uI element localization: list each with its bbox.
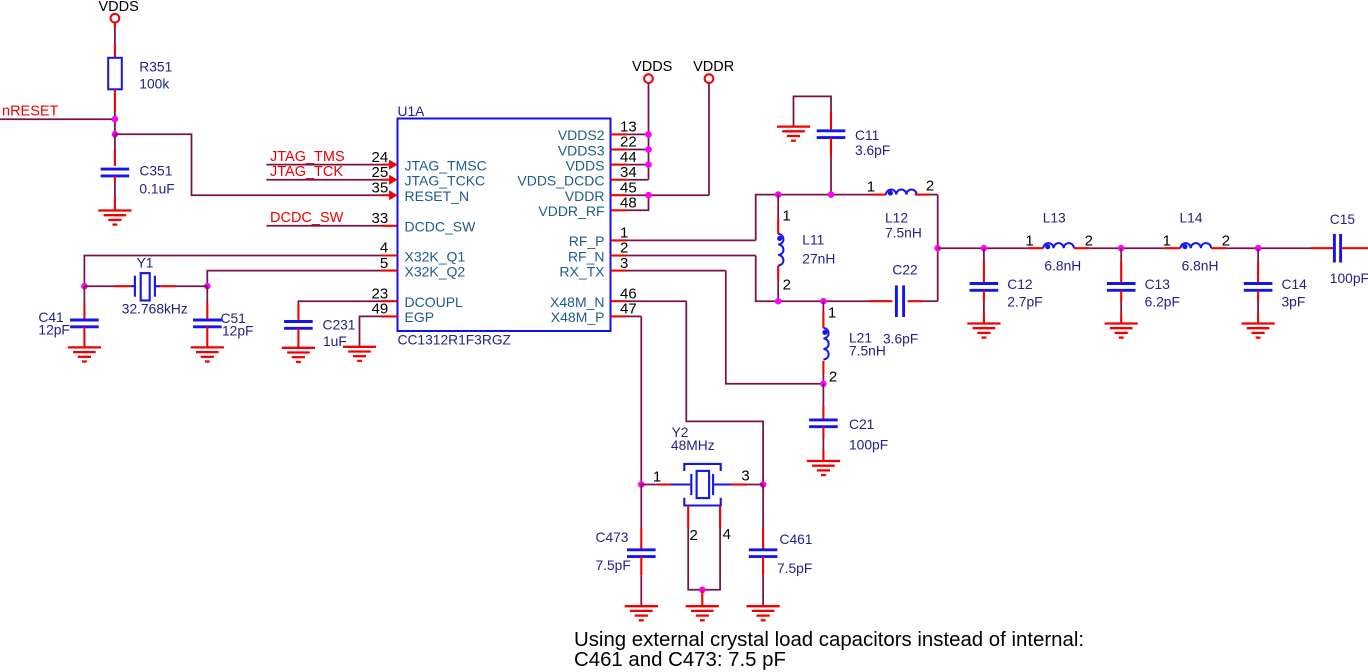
wire VDDR horizontal bbox=[627, 194, 710, 196]
ground C461 bbox=[747, 606, 780, 620]
wire JTAG_TMS bbox=[267, 164, 383, 166]
capacitor C473 bbox=[627, 550, 656, 557]
svg-text:100pF: 100pF bbox=[1330, 271, 1368, 286]
wire RF_N down to bottom rail bbox=[756, 256, 779, 302]
capacitor C22 bbox=[896, 285, 903, 317]
svg-text:7.5pF: 7.5pF bbox=[777, 561, 812, 576]
crystal Y2 48MHz bbox=[671, 464, 731, 506]
svg-text:DCDC_SW: DCDC_SW bbox=[405, 219, 477, 235]
svg-text:2.7pF: 2.7pF bbox=[1007, 295, 1042, 310]
wire DCOUPL to C231 bbox=[298, 301, 381, 304]
wire C41 to ground bbox=[83, 327, 85, 348]
svg-text:DCOUPL: DCOUPL bbox=[405, 294, 464, 310]
wire pin 48 to VDDR junction bbox=[627, 195, 649, 210]
pin stub X32K_Q1 bbox=[381, 254, 398, 256]
capacitor C41 bbox=[70, 320, 99, 327]
pin stub X32K_Q2 bbox=[381, 270, 398, 272]
svg-text:3: 3 bbox=[741, 467, 749, 484]
svg-text:7.5nH: 7.5nH bbox=[849, 344, 886, 359]
junction L21/RX_TX/C21 bbox=[820, 381, 827, 388]
capacitor C11 bbox=[817, 131, 846, 138]
capacitor C231 bbox=[284, 322, 313, 329]
pin stub 48 bbox=[611, 209, 627, 211]
wire Y2 pin4 bbox=[719, 506, 721, 529]
svg-text:R351: R351 bbox=[139, 60, 172, 75]
pin stub 3 bbox=[611, 270, 627, 272]
svg-text:100k: 100k bbox=[139, 77, 169, 92]
junction Y2 pin 3 bbox=[760, 481, 767, 488]
wire X48M_N from pin 46 bbox=[627, 300, 687, 302]
wire pin 13 to VDDS bbox=[627, 133, 649, 135]
svg-text:C461 and C473: 7.5 pF: C461 and C473: 7.5 pF bbox=[574, 649, 786, 671]
power symbol VDDS (top left) bbox=[111, 14, 120, 23]
wire C13 to ground bbox=[1120, 290, 1122, 302]
svg-text:L14: L14 bbox=[1180, 210, 1203, 225]
wire Y2 pin1 lead bbox=[641, 484, 658, 486]
wire X32K_Q2 from pin 5 bbox=[207, 271, 381, 287]
svg-text:25: 25 bbox=[372, 164, 389, 181]
capacitor C15 bbox=[1334, 234, 1340, 263]
wire nRESET vertical bbox=[114, 112, 116, 134]
wire L13 pin2 red stub bbox=[1074, 247, 1089, 249]
wire Y2 case to ground bbox=[701, 590, 703, 606]
wire to C12 bbox=[983, 248, 985, 261]
pin stub 34 bbox=[611, 179, 627, 181]
svg-text:34: 34 bbox=[620, 164, 637, 181]
junction C12 tap bbox=[981, 245, 988, 252]
svg-text:C11: C11 bbox=[855, 128, 879, 143]
wire to C51 bbox=[206, 286, 208, 303]
wire EGP to ground bbox=[360, 316, 382, 346]
svg-text:2: 2 bbox=[783, 277, 791, 294]
junction Y2 case bbox=[699, 587, 706, 594]
wire C351 to ground bbox=[114, 176, 116, 182]
wire L14 pin2 red stub bbox=[1211, 247, 1226, 249]
svg-text:2: 2 bbox=[829, 369, 837, 386]
wire DCDC_SW bbox=[267, 225, 383, 227]
wire Y2 pin3 lead bbox=[731, 483, 747, 485]
wire top rail to corner bbox=[930, 194, 938, 196]
inductor L14 bbox=[1181, 243, 1212, 249]
pin stub EGP bbox=[381, 315, 398, 317]
svg-text:32.768kHz: 32.768kHz bbox=[122, 301, 188, 316]
pin stub 13 bbox=[611, 133, 627, 135]
wire L21 pin2 bbox=[822, 361, 824, 374]
svg-text:C21: C21 bbox=[849, 417, 874, 432]
power symbol VDDS (right) bbox=[644, 74, 653, 83]
wire R351 to nRESET node (red stub) bbox=[114, 89, 116, 112]
svg-text:2: 2 bbox=[690, 527, 698, 544]
svg-text:1: 1 bbox=[1163, 233, 1171, 250]
pin stub DCOUPL bbox=[381, 300, 398, 302]
wire C11 top stub bbox=[830, 111, 832, 131]
wire VDDR vertical bbox=[708, 83, 710, 195]
wire C22 pin2 red stub bbox=[908, 300, 922, 302]
svg-text:48: 48 bbox=[620, 195, 637, 212]
svg-text:3pF: 3pF bbox=[1282, 295, 1306, 310]
svg-text:35: 35 bbox=[372, 179, 389, 196]
wire C461 to ground bbox=[762, 557, 764, 576]
wire bottom rail right part bbox=[922, 300, 938, 302]
input arrow JTAG_TCKC bbox=[389, 175, 397, 185]
svg-text:VDDS: VDDS bbox=[99, 0, 139, 15]
junction nRESET A bbox=[112, 116, 119, 123]
capacitor C14 bbox=[1244, 284, 1273, 291]
svg-text:VDDR: VDDR bbox=[693, 59, 734, 75]
svg-text:Using external crystal load ca: Using external crystal load capacitors i… bbox=[574, 629, 1084, 651]
power symbol VDDR bbox=[705, 74, 714, 83]
svg-text:49: 49 bbox=[372, 301, 389, 318]
wire nRESET horizontal bbox=[0, 118, 115, 120]
junction L11 bottom bbox=[775, 298, 782, 305]
capacitor C461 bbox=[749, 550, 778, 557]
wire C14 to ground bbox=[1257, 290, 1259, 302]
svg-text:4: 4 bbox=[723, 526, 731, 543]
junction VDDS pin22 bbox=[645, 146, 652, 153]
ground C51 bbox=[191, 347, 224, 361]
svg-text:VDDS_DCDC: VDDS_DCDC bbox=[517, 173, 604, 189]
wire pin 34 to VDDS bbox=[627, 179, 649, 181]
svg-text:3: 3 bbox=[620, 255, 628, 272]
svg-text:X32K_Q2: X32K_Q2 bbox=[405, 263, 466, 279]
svg-text:VDDS: VDDS bbox=[566, 157, 605, 173]
svg-text:1: 1 bbox=[782, 207, 790, 224]
wire to C461 bbox=[762, 485, 764, 529]
inductor L21 bbox=[822, 328, 828, 360]
pin stub 45 bbox=[611, 194, 627, 196]
svg-text:1: 1 bbox=[1025, 233, 1033, 250]
svg-text:C15: C15 bbox=[1330, 212, 1356, 227]
svg-text:VDDR_RF: VDDR_RF bbox=[538, 203, 604, 219]
svg-text:Y1: Y1 bbox=[137, 256, 154, 271]
svg-text:2: 2 bbox=[926, 178, 934, 195]
ground C14 bbox=[1242, 324, 1275, 338]
svg-text:5: 5 bbox=[380, 255, 388, 272]
svg-text:C12: C12 bbox=[1007, 277, 1032, 292]
wire Y1 left lead bbox=[84, 285, 114, 287]
wire L14 pin1 red stub bbox=[1165, 247, 1181, 249]
ground C21 bbox=[807, 461, 840, 475]
wire to C14 bbox=[1257, 248, 1259, 261]
pin stub 1 bbox=[611, 239, 627, 241]
wire L12 pin2 red stub bbox=[915, 194, 930, 196]
wire JTAG_TCK bbox=[267, 179, 383, 181]
junction Y2 pin 1 bbox=[638, 481, 645, 488]
svg-text:JTAG_TCK: JTAG_TCK bbox=[270, 164, 343, 180]
capacitor C351 bbox=[101, 169, 130, 176]
ground C12 bbox=[967, 324, 1000, 338]
wire to C351 bbox=[114, 134, 116, 150]
junction VDDS pin44 bbox=[645, 161, 652, 168]
junction C11 bottom bbox=[828, 191, 835, 198]
svg-text:3.6pF: 3.6pF bbox=[883, 332, 918, 347]
wire to C473 bbox=[640, 485, 642, 529]
svg-text:C473: C473 bbox=[596, 530, 629, 545]
junction C13 tap bbox=[1118, 245, 1125, 252]
svg-text:DCDC_SW: DCDC_SW bbox=[270, 210, 344, 226]
capacitor C12 bbox=[970, 284, 999, 291]
wire right edge of matching box bbox=[937, 195, 939, 302]
svg-text:RESET_N: RESET_N bbox=[405, 188, 470, 204]
svg-text:48MHz: 48MHz bbox=[671, 438, 715, 453]
pin stub 22 bbox=[611, 148, 627, 150]
svg-text:VDDR: VDDR bbox=[565, 188, 605, 204]
wire nRESET to RESET_N pin bbox=[115, 134, 382, 195]
svg-text:1: 1 bbox=[828, 305, 836, 322]
wire to C13 bbox=[1120, 248, 1122, 261]
pin stub 44 bbox=[611, 164, 627, 166]
ground C11 bbox=[777, 127, 810, 141]
junction Y1 right bbox=[204, 283, 211, 290]
svg-text:nRESET: nRESET bbox=[2, 104, 59, 120]
junction VDDS pin13 bbox=[645, 131, 652, 138]
ground Y2 case bbox=[686, 606, 719, 620]
svg-text:7.5pF: 7.5pF bbox=[596, 558, 631, 573]
capacitor C21 bbox=[809, 420, 838, 427]
svg-text:0.1uF: 0.1uF bbox=[139, 182, 174, 197]
svg-text:X48M_N: X48M_N bbox=[550, 294, 604, 310]
wire C11 top hook to ground bbox=[794, 96, 832, 126]
svg-text:VDDS: VDDS bbox=[632, 59, 672, 75]
inductor L11 bbox=[777, 234, 783, 266]
IC U1A CC1312R1F3RGZ bbox=[398, 119, 611, 332]
svg-text:6.2pF: 6.2pF bbox=[1145, 295, 1180, 310]
wire C21 to ground bbox=[822, 427, 824, 438]
wire to C21 bbox=[822, 384, 824, 406]
wire pin 22 to VDDS bbox=[627, 149, 649, 151]
wire Y2 case bottom bbox=[687, 589, 721, 591]
svg-text:47: 47 bbox=[620, 301, 637, 318]
svg-text:1: 1 bbox=[867, 178, 875, 195]
svg-text:RF_N: RF_N bbox=[568, 248, 605, 264]
svg-text:X32K_Q1: X32K_Q1 bbox=[405, 248, 466, 264]
wire RF output line bbox=[938, 247, 1028, 249]
wire to C41 bbox=[83, 286, 85, 303]
wire RX_TX from pin 3 bbox=[627, 270, 726, 272]
junction Y1 left bbox=[81, 283, 88, 290]
ground C473 bbox=[625, 606, 658, 620]
inductor L13 bbox=[1043, 243, 1074, 249]
input arrow RESET_N bbox=[389, 190, 397, 200]
pin stub 2 bbox=[611, 254, 627, 256]
wire RF_P up to top rail bbox=[756, 195, 871, 241]
svg-text:JTAG_TCKC: JTAG_TCKC bbox=[405, 173, 486, 189]
svg-text:JTAG_TMS: JTAG_TMS bbox=[270, 149, 345, 165]
capacitor C13 bbox=[1107, 284, 1136, 291]
wire bottom rail left part bbox=[778, 300, 870, 302]
wire C231 to ground bbox=[297, 328, 299, 348]
junction VDDR pins 45/48 bbox=[645, 192, 652, 199]
wire L11 pin2 bbox=[777, 266, 779, 281]
wire pin 44 to VDDS bbox=[627, 164, 649, 166]
svg-text:EGP: EGP bbox=[405, 309, 435, 325]
wire C15 pin2 to edge bbox=[1341, 247, 1368, 249]
wire VDDS vertical bbox=[648, 83, 650, 180]
wire to C15 bbox=[1226, 247, 1311, 249]
svg-text:C231: C231 bbox=[323, 318, 356, 333]
wire C12 to ground bbox=[983, 290, 985, 302]
wire VDDS to R351 bbox=[114, 23, 116, 28]
junction C14 tap bbox=[1255, 245, 1262, 252]
svg-text:12pF: 12pF bbox=[222, 324, 253, 339]
ground C13 bbox=[1105, 324, 1138, 338]
pin stub 46 bbox=[611, 300, 627, 302]
svg-text:RF_P: RF_P bbox=[569, 233, 605, 249]
wire RF_N from pin 2 bbox=[627, 255, 756, 257]
junction nRESET B bbox=[112, 131, 119, 138]
svg-text:CC1312R1F3RGZ: CC1312R1F3RGZ bbox=[398, 333, 511, 348]
wire L11 pin1 bbox=[777, 195, 779, 218]
wire L13 pin1 red stub bbox=[1028, 247, 1044, 249]
wire Y1 right lead bbox=[160, 285, 176, 287]
svg-text:VDDS2: VDDS2 bbox=[558, 127, 605, 143]
svg-text:C351: C351 bbox=[139, 164, 172, 179]
svg-text:12pF: 12pF bbox=[38, 322, 69, 337]
wire C11 bottom bbox=[830, 138, 832, 157]
junction L11 top bbox=[775, 191, 782, 198]
inductor L12 bbox=[886, 190, 917, 196]
svg-text:1: 1 bbox=[653, 468, 661, 485]
wire C473 to ground bbox=[640, 557, 642, 576]
svg-text:L13: L13 bbox=[1043, 210, 1066, 225]
wire X48M_P from pin 47 bbox=[627, 315, 642, 317]
capacitor C51 bbox=[193, 320, 222, 327]
wire to L14 bbox=[1089, 247, 1165, 249]
svg-text:RX_TX: RX_TX bbox=[559, 263, 605, 279]
resistor R351 bbox=[108, 58, 122, 90]
svg-text:X48M_P: X48M_P bbox=[551, 309, 605, 325]
svg-text:C14: C14 bbox=[1282, 277, 1308, 292]
ground C231 bbox=[282, 348, 315, 362]
svg-text:C13: C13 bbox=[1145, 277, 1171, 292]
svg-text:27nH: 27nH bbox=[802, 251, 835, 266]
wire X32K_Q1 from pin 4 bbox=[84, 256, 381, 287]
junction RF output tap bbox=[934, 245, 941, 252]
wire top rail red segment into L12 bbox=[871, 194, 886, 196]
wire Y2 pin2 bbox=[687, 506, 689, 529]
svg-text:L12: L12 bbox=[885, 210, 908, 225]
ground EGP bbox=[343, 347, 376, 361]
crystal Y1 32.768kHz bbox=[131, 273, 160, 300]
ground C351 bbox=[98, 211, 131, 225]
svg-text:C461: C461 bbox=[780, 532, 813, 547]
svg-text:3.6pF: 3.6pF bbox=[855, 143, 890, 158]
pin stub 47 bbox=[611, 315, 627, 317]
svg-text:7.5nH: 7.5nH bbox=[885, 225, 922, 240]
wire C15 pin1 red stub bbox=[1311, 247, 1334, 249]
svg-text:33: 33 bbox=[372, 210, 389, 227]
svg-text:JTAG_TMSC: JTAG_TMSC bbox=[405, 157, 487, 173]
input arrow JTAG_TMSC bbox=[389, 160, 397, 170]
wire C51 to ground bbox=[206, 327, 208, 348]
svg-text:VDDS3: VDDS3 bbox=[558, 142, 605, 158]
ground C41 bbox=[68, 347, 101, 361]
svg-text:100pF: 100pF bbox=[849, 438, 888, 453]
wire L21 pin1 bbox=[822, 301, 824, 312]
junction L21 top bbox=[820, 298, 827, 305]
wire RF_P from pin 1 bbox=[627, 239, 756, 241]
svg-text:U1A: U1A bbox=[398, 104, 426, 119]
wire C22 pin1 red stub bbox=[870, 300, 892, 302]
svg-text:6.8nH: 6.8nH bbox=[1182, 258, 1219, 273]
svg-text:C22: C22 bbox=[892, 263, 917, 278]
svg-text:6.8nH: 6.8nH bbox=[1044, 258, 1081, 273]
svg-text:L11: L11 bbox=[802, 232, 824, 247]
